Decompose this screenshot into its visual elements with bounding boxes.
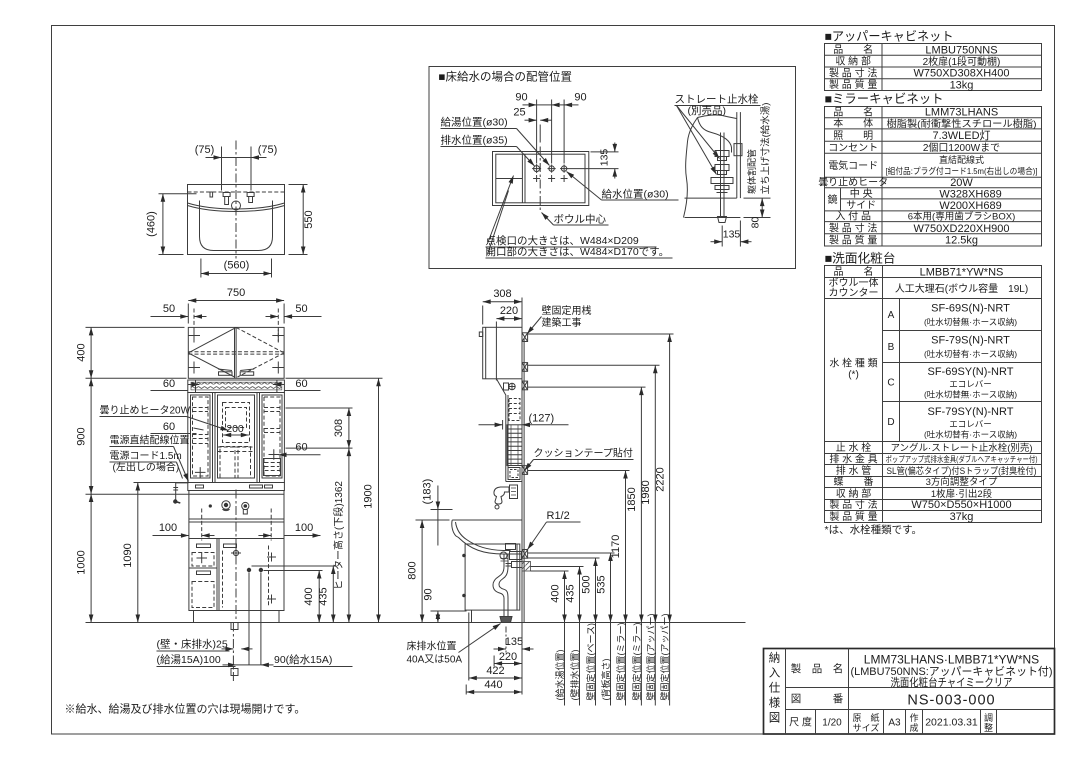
dim 435 side xyxy=(531,567,584,623)
svg-text:800: 800 xyxy=(407,561,419,579)
svg-text:排 水 管: 排 水 管 xyxy=(836,464,872,477)
svg-text:W750XD220XH900: W750XD220XH900 xyxy=(913,223,1009,235)
upper cabinet handles xyxy=(219,372,233,376)
svg-text:(壁・床排水)25: (壁・床排水)25 xyxy=(157,638,228,651)
apron band xyxy=(189,538,284,540)
svg-text:壁固定位置(アッパー): 壁固定位置(アッパー) xyxy=(659,614,670,701)
svg-text:50: 50 xyxy=(163,303,175,315)
svg-text:製 品 寸 法: 製 品 寸 法 xyxy=(829,222,877,235)
svg-text:LMBB71*YW*NS: LMBB71*YW*NS xyxy=(920,266,1004,278)
svg-text:壁固定位置(ミラー): 壁固定位置(ミラー) xyxy=(631,623,642,701)
svg-text:135: 135 xyxy=(723,229,741,241)
floor line xyxy=(104,622,746,624)
table: mirror cabinet grid xyxy=(825,107,1042,247)
center mirror panel xyxy=(218,395,255,478)
detail section: floor slab xyxy=(685,198,741,217)
dim 50 left xyxy=(151,316,189,318)
svg-text:SF-79S(N)-NRT: SF-79S(N)-NRT xyxy=(931,335,1010,347)
side: wall fix bracket upper1 xyxy=(522,333,528,342)
table: upper cabinet values xyxy=(913,44,1009,91)
light band xyxy=(188,380,285,393)
detail plan: cabinet base outline xyxy=(493,152,589,206)
svg-text:80: 80 xyxy=(750,217,762,229)
dim 500 xyxy=(528,558,600,623)
svg-text:ヒーター高さ(下段)1362: ヒーター高さ(下段)1362 xyxy=(332,481,345,590)
side: upper cabinet box xyxy=(483,327,522,379)
svg-text:SL管(偏芯タイプ)付Sトラップ(封臭栓付): SL管(偏芯タイプ)付Sトラップ(封臭栓付) xyxy=(887,465,1037,476)
svg-text:エコレバー: エコレバー xyxy=(949,419,992,429)
dim 135 bottom xyxy=(494,627,534,653)
svg-text:LMM73LHANS·LMBB71*YW*NS: LMM73LHANS·LMBB71*YW*NS xyxy=(864,653,1039,667)
svg-text:アングル·ストレート止水栓(別売): アングル·ストレート止水栓(別売) xyxy=(890,442,1032,454)
drawer cross xyxy=(197,553,208,564)
svg-text:納: 納 xyxy=(769,652,781,665)
svg-text:37kg: 37kg xyxy=(950,511,974,523)
svg-text:(壁排水位置): (壁排水位置) xyxy=(569,650,580,701)
svg-text:建築工事: 建築工事 xyxy=(542,316,582,329)
power cord symbol xyxy=(176,483,189,500)
svg-text:給水位置(ø30): 給水位置(ø30) xyxy=(602,188,669,201)
svg-text:A3: A3 xyxy=(888,717,901,728)
svg-text:40A又は50A: 40A又は50A xyxy=(407,654,463,666)
svg-text:図 番: 図 番 xyxy=(791,693,844,705)
side: stop valve assembly at wall xyxy=(500,544,522,568)
dim 308 right xyxy=(286,408,353,448)
dim (460) xyxy=(159,194,197,255)
svg-text:550: 550 xyxy=(303,210,315,228)
svg-text:(給水湯位置): (給水湯位置) xyxy=(554,650,565,701)
svg-text:W750×D550×H1000: W750×D550×H1000 xyxy=(911,499,1011,511)
svg-text:(吐水切替無·ホース収納): (吐水切替無·ホース収納) xyxy=(924,317,1017,327)
side: bottom of mirror box / shelf xyxy=(506,481,522,483)
svg-text:製 品 寸 法: 製 品 寸 法 xyxy=(829,67,877,80)
drawer split xyxy=(189,567,217,569)
svg-text:2個口1200Wまで: 2個口1200Wまで xyxy=(923,141,1000,154)
svg-text:品 名: 品 名 xyxy=(834,265,874,278)
svg-text:エコレバー: エコレバー xyxy=(949,379,992,389)
dim (127) xyxy=(479,420,569,430)
side: light fixture xyxy=(504,383,509,390)
detail section: leaders to valves xyxy=(677,106,720,159)
svg-text:(*): (*) xyxy=(848,370,859,381)
svg-text:水 栓 種 類: 水 栓 種 類 xyxy=(829,357,877,370)
mirror bottom shelf strip xyxy=(188,483,285,491)
svg-text:60: 60 xyxy=(163,378,175,390)
svg-text:鏡: 鏡 xyxy=(828,193,838,206)
svg-text:図: 図 xyxy=(769,712,781,725)
dim 90 left (detail) xyxy=(523,104,537,106)
svg-text:■ミラーキャビネット: ■ミラーキャビネット xyxy=(825,92,944,106)
table: mirror cabinet values xyxy=(886,107,1038,247)
dim 1980 xyxy=(528,365,660,622)
svg-text:90: 90 xyxy=(515,92,527,104)
svg-text:750: 750 xyxy=(227,287,245,299)
upper cabinet door split xyxy=(235,327,237,378)
svg-text:床排水位置: 床排水位置 xyxy=(407,640,457,653)
svg-text:R1/2: R1/2 xyxy=(547,510,570,522)
svg-text:躯体割配管: 躯体割配管 xyxy=(746,149,757,194)
svg-text:1850: 1850 xyxy=(626,487,638,511)
dim (183) xyxy=(431,486,453,546)
side: base cabinet box xyxy=(465,544,520,610)
svg-text:蝶 番: 蝶 番 xyxy=(834,475,874,488)
svg-text:[組付品:プラグ付コード1.5m(右出しの場合)]: [組付品:プラグ付コード1.5m(右出しの場合)] xyxy=(886,166,1038,176)
bottom vertical labels xyxy=(554,614,670,706)
svg-text:本 体: 本 体 xyxy=(833,117,873,130)
svg-text:※給水、給湯及び排水位置の穴は現場開けです。: ※給水、給湯及び排水位置の穴は現場開けです。 xyxy=(65,702,306,716)
svg-text:LMBU750NNS: LMBU750NNS xyxy=(925,44,997,56)
svg-text:400: 400 xyxy=(303,587,315,605)
detail plan: bowl centerline xyxy=(539,147,541,212)
svg-text:1900: 1900 xyxy=(363,484,375,508)
svg-text:入: 入 xyxy=(769,667,781,680)
svg-text:422: 422 xyxy=(486,665,504,677)
dim 400 left xyxy=(86,327,185,378)
svg-text:電気コード: 電気コード xyxy=(828,159,878,172)
supply stub dots xyxy=(247,568,251,572)
dim 1900 right xyxy=(286,378,383,622)
svg-text:20W: 20W xyxy=(950,177,973,189)
svg-text:ポップアップ式排水金具(ダブルヘアキャッチャー付): ポップアップ式排水金具(ダブルヘアキャッチャー付) xyxy=(886,454,1038,464)
svg-text:サイズ: サイズ xyxy=(853,722,880,733)
detail plan: cold water hole ø30 xyxy=(560,165,568,173)
dim 1000 left xyxy=(86,494,189,623)
svg-text:6本用(専用歯ブラシBOX): 6本用(専用歯ブラシBOX) xyxy=(908,211,1015,223)
svg-text:カウンター: カウンター xyxy=(829,287,879,299)
drawer inner dashed xyxy=(192,546,269,608)
dim 1850 xyxy=(528,387,646,622)
dim 220 bottom xyxy=(494,656,522,667)
side: S-trap xyxy=(493,554,512,623)
svg-text:1/20: 1/20 xyxy=(822,717,842,728)
right mirror panel xyxy=(262,395,282,478)
dim 550 xyxy=(289,185,308,255)
svg-text:(460): (460) xyxy=(146,211,158,237)
svg-text:収 納 部: 収 納 部 xyxy=(836,487,872,500)
plan: drain circle xyxy=(232,201,241,210)
dim 750 xyxy=(188,301,284,324)
svg-text:25: 25 xyxy=(513,107,525,119)
below-floor supply lines xyxy=(248,573,250,665)
detail box: floor-feed piping position xyxy=(429,67,796,269)
svg-text:入 付 品: 入 付 品 xyxy=(835,210,871,223)
table: upper cabinet grid xyxy=(825,44,1042,91)
svg-text:W750XD308XH400: W750XD308XH400 xyxy=(913,68,1009,80)
svg-text:220: 220 xyxy=(500,305,518,317)
svg-text:コンセント: コンセント xyxy=(828,142,878,154)
hinge dashed verticals top xyxy=(193,309,195,343)
svg-text:排水位置(ø35): 排水位置(ø35) xyxy=(441,134,508,147)
svg-text:B: B xyxy=(888,342,895,353)
dim 400 side xyxy=(531,571,569,623)
svg-text:中 央: 中 央 xyxy=(850,187,873,200)
dim 400 right xyxy=(264,571,323,623)
svg-text:直結配線式: 直結配線式 xyxy=(939,154,984,165)
svg-text:作: 作 xyxy=(909,712,918,723)
side: mirror cabinet profile xyxy=(496,379,505,482)
dim 422 bottom xyxy=(469,613,522,681)
svg-text:壁固定用桟: 壁固定用桟 xyxy=(542,304,592,317)
counter backsplash top xyxy=(189,493,284,495)
faucet knobs on deck xyxy=(209,504,212,507)
svg-text:排 水 金 具: 排 水 金 具 xyxy=(829,453,877,466)
svg-text:開口部の大きさは、W484×D170です。: 開口部の大きさは、W484×D170です。 xyxy=(486,245,670,258)
dim 900 left xyxy=(86,378,187,494)
svg-text:仕: 仕 xyxy=(769,682,781,695)
svg-text:(吐水切替有·ホース収納): (吐水切替有·ホース収納) xyxy=(924,349,1017,359)
detail plan: drain hole ø35 xyxy=(532,164,541,173)
side: counter & bowl section xyxy=(452,519,522,521)
dim 135 (detail plan) xyxy=(568,143,619,179)
dim 135 (detail section) xyxy=(711,221,752,247)
svg-text:製 品 質 量: 製 品 質 量 xyxy=(829,510,877,523)
svg-text:壁固定位置(アッパー): 壁固定位置(アッパー) xyxy=(645,614,656,701)
svg-text:人工大理石(ボウル容量 19L): 人工大理石(ボウル容量 19L) xyxy=(895,282,1028,295)
svg-text:2021.03.31: 2021.03.31 xyxy=(925,716,978,728)
svg-text:435: 435 xyxy=(318,587,330,605)
svg-text:サイド: サイド xyxy=(846,200,876,212)
title block: vertical caption 納入仕様図 xyxy=(769,652,781,725)
svg-text:収 納 部: 収 納 部 xyxy=(835,55,871,68)
dim 90 xyxy=(431,611,467,623)
dim 1090 xyxy=(134,483,188,623)
svg-text:900: 900 xyxy=(76,427,88,445)
table: mirror cabinet labels xyxy=(818,106,888,247)
plan: faucet hole symbols xyxy=(210,192,254,205)
basin body sides xyxy=(189,491,284,539)
dim 800 xyxy=(416,520,450,623)
svg-text:製 品 寸 法: 製 品 寸 法 xyxy=(829,498,877,511)
svg-text:220: 220 xyxy=(499,651,517,663)
svg-text:壁固定位置(ミラー): 壁固定位置(ミラー) xyxy=(615,623,626,701)
svg-text:様: 様 xyxy=(769,696,781,710)
upper cabinet hinge crosses xyxy=(188,330,284,374)
svg-text:60: 60 xyxy=(163,421,175,433)
svg-text:100: 100 xyxy=(159,522,177,534)
svg-text:製 品 質 量: 製 品 質 量 xyxy=(829,78,877,91)
svg-text:135: 135 xyxy=(599,149,611,167)
counter bottom edges xyxy=(189,518,284,520)
upper cabinet outline xyxy=(188,327,284,378)
svg-text:NS-003-000: NS-003-000 xyxy=(907,693,995,709)
svg-text:■アッパーキャビネット: ■アッパーキャビネット xyxy=(825,30,954,44)
dim 220 top xyxy=(496,319,522,381)
svg-text:(吐水切替有·ホース収納): (吐水切替有·ホース収納) xyxy=(924,430,1017,440)
side: wall fix bracket base xyxy=(522,550,528,559)
side: wall fix bracket mirror-bottom xyxy=(522,466,528,475)
side: faucet profile xyxy=(494,485,518,509)
svg-text:立ち上げ寸法(給水湯): 立ち上げ寸法(給水湯) xyxy=(760,103,772,195)
dim 25 (detail) xyxy=(525,119,537,121)
svg-text:135: 135 xyxy=(505,636,523,648)
mirror cabinet outline xyxy=(188,393,285,483)
svg-text:*は、水栓種類です。: *は、水栓種類です。 xyxy=(825,523,923,536)
svg-text:(左出しの場合): (左出しの場合) xyxy=(113,461,180,474)
svg-text:A: A xyxy=(888,310,895,321)
svg-text:90(給水15A): 90(給水15A) xyxy=(274,653,332,666)
side: wall fix bracket upper2 xyxy=(522,363,528,372)
drain cross in cabinet xyxy=(233,550,238,555)
svg-text:200: 200 xyxy=(226,423,244,435)
svg-text:(給湯15A)100: (給湯15A)100 xyxy=(157,653,221,666)
dim 1170 xyxy=(528,471,630,623)
svg-text:440: 440 xyxy=(484,679,502,691)
side: wall plate hatched xyxy=(522,562,531,572)
plan: deck front edge xyxy=(188,206,285,212)
side: right edge extension above cabinet xyxy=(521,298,523,328)
svg-text:調: 調 xyxy=(984,712,993,723)
mirror panels dividers xyxy=(213,393,260,483)
kick plate xyxy=(194,611,280,623)
svg-text:12.5kg: 12.5kg xyxy=(945,235,978,247)
table: vanity values xyxy=(886,266,1038,523)
svg-text:(127): (127) xyxy=(529,413,555,425)
svg-text:(75): (75) xyxy=(258,144,278,156)
svg-text:品 名: 品 名 xyxy=(833,43,873,56)
svg-text:90: 90 xyxy=(574,92,586,104)
svg-text:1980: 1980 xyxy=(640,480,652,504)
svg-text:製 品 質 量: 製 品 質 量 xyxy=(829,233,877,246)
svg-text:2枚扉(1段可動棚): 2枚扉(1段可動棚) xyxy=(923,55,1001,68)
table: upper cabinet labels xyxy=(829,43,877,91)
svg-text:2220: 2220 xyxy=(654,467,666,491)
svg-text:SF-69SY(N)-NRT: SF-69SY(N)-NRT xyxy=(928,366,1014,378)
title block grid xyxy=(786,649,1055,735)
svg-text:308: 308 xyxy=(333,419,345,437)
svg-text:50: 50 xyxy=(295,303,307,315)
side: wall line xyxy=(521,331,523,623)
note: inspection port size (leader) xyxy=(488,176,514,244)
svg-text:■床給水の場合の配管位置: ■床給水の場合の配管位置 xyxy=(439,70,572,84)
detail section: supply pipe and valves xyxy=(711,133,733,223)
svg-text:400: 400 xyxy=(76,343,88,361)
dim 50 right xyxy=(266,316,279,318)
dim 90 right (detail) xyxy=(564,104,578,106)
dim 308 top xyxy=(483,302,522,325)
svg-text:成: 成 xyxy=(909,722,918,733)
svg-text:尺 度: 尺 度 xyxy=(789,715,812,728)
dim (560) xyxy=(201,259,272,278)
below-floor drain stub xyxy=(231,623,238,630)
left mirror panel xyxy=(191,395,211,478)
svg-text:SF-79SY(N)-NRT: SF-79SY(N)-NRT xyxy=(928,406,1014,418)
svg-text:SF-69S(N)-NRT: SF-69S(N)-NRT xyxy=(931,303,1010,315)
svg-text:(560): (560) xyxy=(224,260,250,272)
table: vanity labels xyxy=(829,265,895,523)
svg-text:洗面化粧台チャイミークリア: 洗面化粧台チャイミークリア xyxy=(891,675,1013,689)
svg-text:曇り止めヒータ20W: 曇り止めヒータ20W xyxy=(100,405,191,417)
svg-text:1170: 1170 xyxy=(610,535,622,559)
dim 1362 heater height xyxy=(348,448,350,622)
dim 435 right xyxy=(252,566,337,623)
svg-text:90: 90 xyxy=(423,588,435,600)
svg-text:電源直結配線位置: 電源直結配線位置 xyxy=(110,434,190,447)
svg-text:7.3WLED灯: 7.3WLED灯 xyxy=(932,129,990,142)
svg-text:LMM73LHANS: LMM73LHANS xyxy=(925,107,998,119)
svg-text:曇り止めヒータ: 曇り止めヒータ xyxy=(818,177,888,189)
detail plan: partition tick crosses xyxy=(533,175,568,182)
side: knobs xyxy=(462,554,466,558)
svg-text:樹脂製(耐衝撃性スチロール樹脂): 樹脂製(耐衝撃性スチロール樹脂) xyxy=(887,118,1037,130)
svg-text:C: C xyxy=(887,378,894,389)
table: vanity grid xyxy=(825,266,1042,523)
upper cabinet door swing dashes xyxy=(188,327,236,377)
dim (75)(75) xyxy=(206,147,267,191)
plan: backsplash dashed line xyxy=(188,191,285,193)
side: mirror cabinet upper box xyxy=(509,399,520,421)
svg-text:3方向調整タイプ: 3方向調整タイプ xyxy=(926,476,998,488)
dim 2220 xyxy=(528,334,674,623)
detail section: basin broken outline xyxy=(684,115,737,218)
detail plan: hot water hole ø30 xyxy=(548,165,556,173)
svg-text:電源コード1.5m: 電源コード1.5m xyxy=(110,449,182,462)
svg-text:止 水 栓: 止 水 栓 xyxy=(836,441,872,454)
svg-text:ボウル中心: ボウル中心 xyxy=(554,213,607,226)
side: wall fix bracket mirror-top xyxy=(522,381,528,390)
plan: centerline xyxy=(235,141,237,259)
side: mirror cabinet bottom compartment xyxy=(508,468,520,480)
svg-text:■洗面化粧台: ■洗面化粧台 xyxy=(825,251,896,266)
door hinge crosses xyxy=(267,553,276,562)
svg-text:原 紙: 原 紙 xyxy=(852,712,879,723)
svg-text:給湯位置(ø30): 給湯位置(ø30) xyxy=(441,116,508,129)
detail plan: extension lines for 90/25 dims xyxy=(537,100,565,164)
svg-text:整: 整 xyxy=(984,722,993,733)
svg-text:13kg: 13kg xyxy=(950,79,974,91)
title block frame xyxy=(764,649,1055,735)
svg-text:照 明: 照 明 xyxy=(833,130,873,142)
svg-text:1090: 1090 xyxy=(122,543,134,567)
svg-text:60: 60 xyxy=(295,378,307,390)
drawer column divider xyxy=(218,539,220,611)
svg-text:400: 400 xyxy=(550,584,562,602)
svg-text:W328XH689: W328XH689 xyxy=(939,188,1001,200)
drawer handles xyxy=(197,544,211,548)
svg-text:壁固定位置(ベース): 壁固定位置(ベース) xyxy=(585,623,596,701)
svg-text:ストレート止水栓: ストレート止水栓 xyxy=(675,93,759,106)
svg-text:60: 60 xyxy=(295,442,307,454)
svg-text:(吐水切替無·ホース収納): (吐水切替無·ホース収納) xyxy=(924,390,1017,400)
svg-text:308: 308 xyxy=(493,288,511,300)
svg-text:1000: 1000 xyxy=(76,550,88,574)
svg-text:W200XH689: W200XH689 xyxy=(939,200,1001,212)
dim 80 (detail section) xyxy=(744,198,771,217)
plan: bowl rounded outline xyxy=(200,201,273,251)
svg-text:1枚扉·引出2段: 1枚扉·引出2段 xyxy=(931,488,993,500)
side: kick recess xyxy=(471,610,473,622)
svg-text:品 名: 品 名 xyxy=(833,106,873,119)
svg-text:500: 500 xyxy=(581,575,593,593)
dim 535 xyxy=(528,553,615,623)
dim 440 bottom xyxy=(466,623,522,695)
svg-text:535: 535 xyxy=(596,575,608,593)
dim 60 right lower xyxy=(269,449,280,460)
plan: counter outline xyxy=(188,185,285,255)
svg-text:製 品 名: 製 品 名 xyxy=(791,662,844,675)
svg-text:(75): (75) xyxy=(195,144,215,156)
svg-text:(183): (183) xyxy=(422,479,434,505)
svg-text:(背板高さ): (背板高さ) xyxy=(600,659,611,701)
centerline through elevation xyxy=(235,490,237,621)
svg-text:D: D xyxy=(887,417,894,428)
svg-text:100: 100 xyxy=(295,522,313,534)
svg-text:435: 435 xyxy=(565,584,577,602)
lower cabinet outline xyxy=(189,539,284,611)
side: mirror cabinet ladder section xyxy=(507,425,522,466)
svg-text:クッションテープ貼付: クッションテープ貼付 xyxy=(534,447,633,460)
detail section: wall double line xyxy=(734,112,742,198)
